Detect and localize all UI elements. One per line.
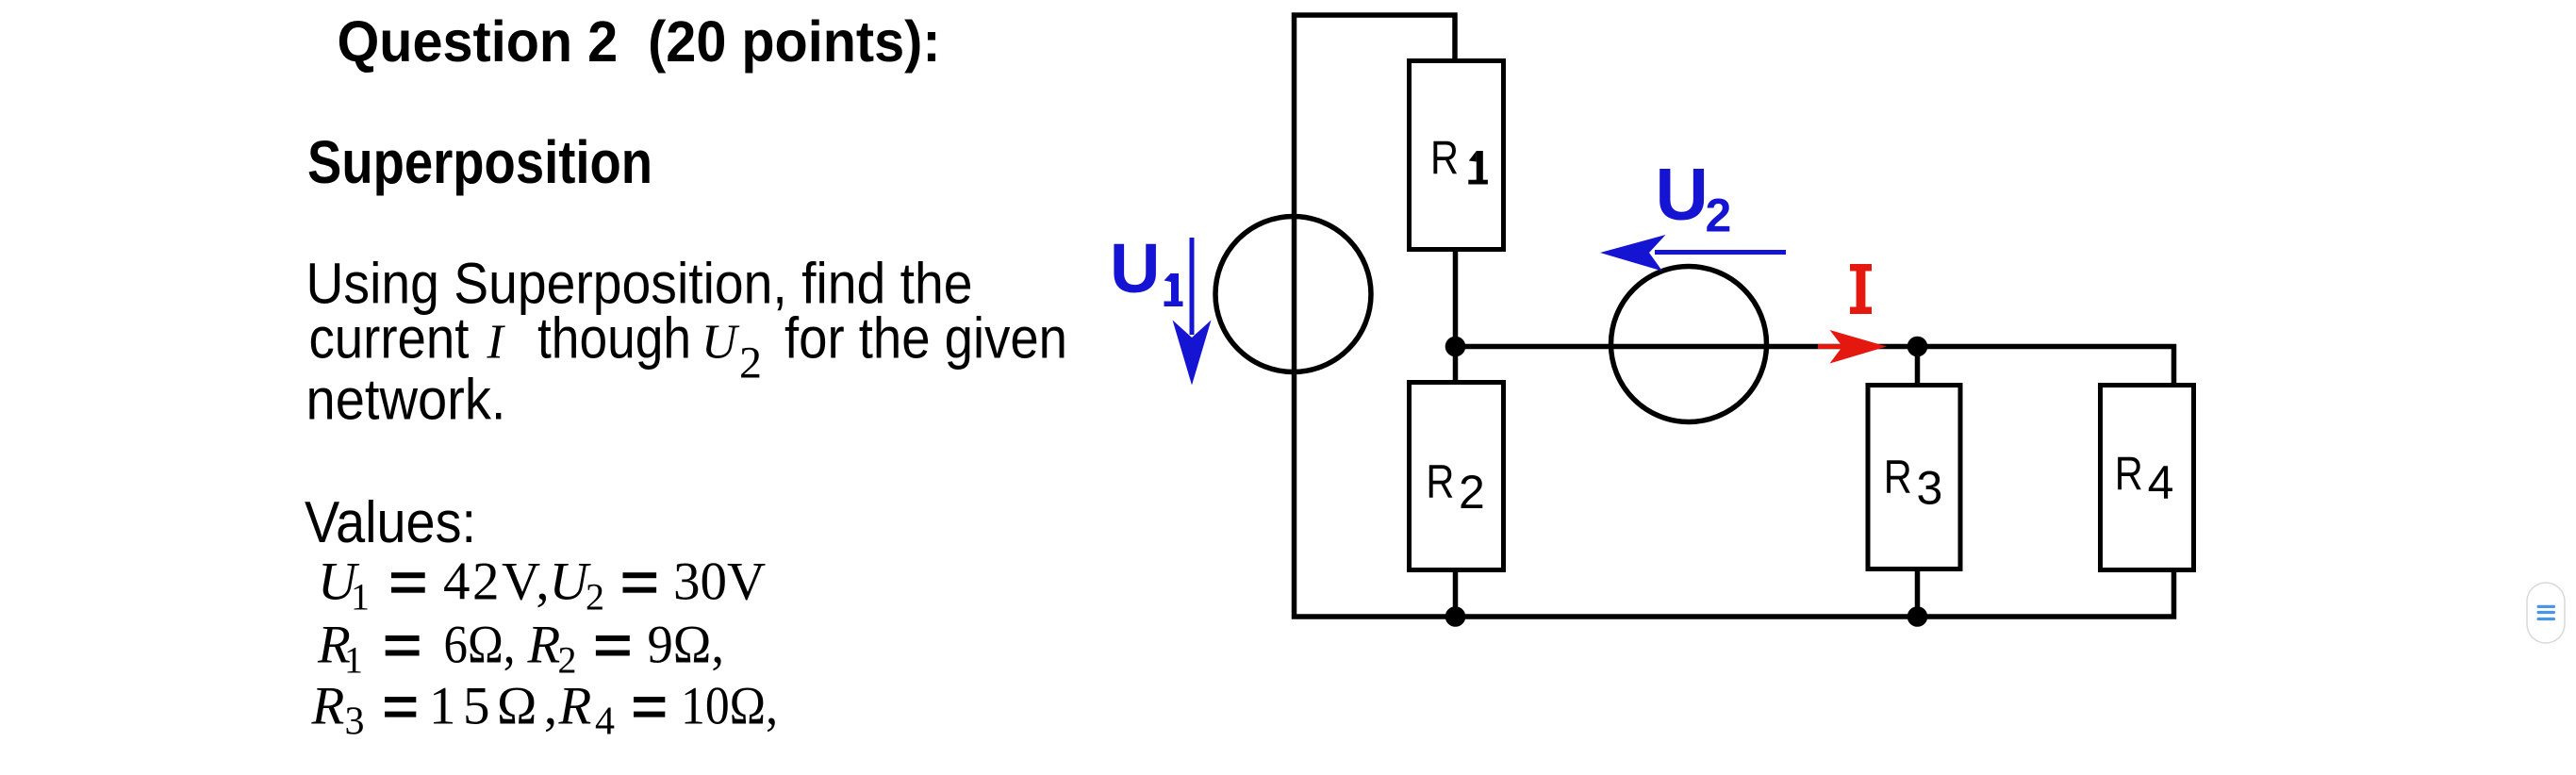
svg-text:R: R bbox=[1430, 132, 1459, 185]
svg-text:3: 3 bbox=[345, 701, 365, 744]
svg-text:R: R bbox=[1426, 455, 1454, 508]
svg-text:current: current bbox=[309, 306, 470, 371]
svg-text:10Ω,: 10Ω, bbox=[681, 676, 778, 735]
svg-text:2: 2 bbox=[558, 639, 577, 682]
svg-text:I: I bbox=[487, 316, 506, 370]
svg-text:2: 2 bbox=[1706, 190, 1732, 242]
svg-text:15Ω,: 15Ω, bbox=[429, 676, 565, 735]
svg-text:Question 2 (20 points):: Question 2 (20 points): bbox=[338, 9, 941, 74]
svg-text:2: 2 bbox=[739, 338, 762, 388]
svg-text:U: U bbox=[1110, 229, 1160, 307]
svg-text:R: R bbox=[311, 676, 345, 735]
svg-text:U: U bbox=[1656, 152, 1709, 235]
svg-text:1: 1 bbox=[344, 639, 363, 682]
svg-text:R: R bbox=[1884, 451, 1912, 503]
svg-text:2: 2 bbox=[1459, 466, 1485, 519]
svg-text:R: R bbox=[2115, 447, 2143, 500]
svg-text:3: 3 bbox=[1917, 462, 1943, 515]
svg-text:U: U bbox=[702, 316, 740, 370]
svg-text:4: 4 bbox=[2148, 456, 2174, 509]
svg-text:4: 4 bbox=[595, 701, 615, 744]
svg-text:network.: network. bbox=[306, 367, 506, 432]
svg-text:for the given: for the given bbox=[784, 306, 1067, 371]
svg-text:30V: 30V bbox=[673, 552, 766, 612]
svg-text:R: R bbox=[527, 615, 561, 674]
svg-text:Values:: Values: bbox=[305, 490, 476, 555]
svg-text:6Ω,: 6Ω, bbox=[444, 615, 516, 674]
svg-text:Superposition: Superposition bbox=[307, 128, 652, 196]
svg-text:1: 1 bbox=[351, 576, 370, 618]
svg-text:though: though bbox=[537, 306, 691, 371]
svg-text:9Ω,: 9Ω, bbox=[648, 615, 725, 674]
svg-text:2: 2 bbox=[586, 576, 604, 618]
svg-text:42V,: 42V, bbox=[443, 552, 552, 612]
svg-text:R: R bbox=[558, 676, 592, 735]
